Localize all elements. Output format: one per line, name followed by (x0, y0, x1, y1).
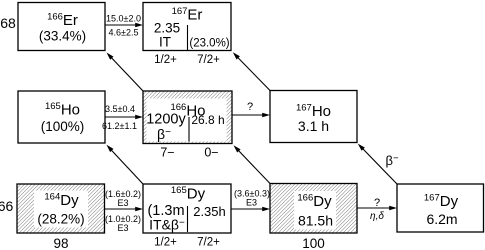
wire arrow 166Er to 167Er (105, 23, 143, 28)
isotope box 165Dy (143, 184, 231, 233)
svg-text:81.5h: 81.5h (298, 213, 333, 229)
isotope box 165Ho (18, 91, 105, 143)
svg-text:61.2±1.1: 61.2±1.1 (102, 121, 137, 131)
wire arrow 165Dy to 165Ho (107, 145, 144, 184)
svg-text:3.1 h: 3.1 h (298, 118, 329, 134)
svg-text:1/2+: 1/2+ (154, 54, 177, 66)
svg-text:2.35: 2.35 (154, 21, 180, 36)
svg-text:(28.2%): (28.2%) (37, 212, 84, 227)
wire arrow 166Dy to 166Ho (234, 145, 271, 183)
wire arrow 166Ho to 166Er (beta) (107, 53, 144, 92)
svg-text:1/2+: 1/2+ (154, 237, 177, 249)
svg-text:(23.0%): (23.0%) (189, 38, 229, 50)
svg-text:2.35h: 2.35h (193, 204, 226, 219)
svg-text:IT: IT (159, 35, 171, 50)
isotope box 166Ho (hatched) (143, 91, 232, 144)
svg-text:7/2+: 7/2+ (197, 54, 220, 66)
svg-text:(33.4%): (33.4%) (39, 29, 86, 44)
svg-text:1200y: 1200y (146, 112, 186, 128)
wire arrow 167Dy to 167Ho (beta) (358, 144, 397, 184)
isotope box 164Dy (hatched) (17, 184, 105, 233)
svg-text:68: 68 (0, 15, 16, 31)
svg-text:E3: E3 (117, 198, 128, 208)
svg-text:0−: 0− (204, 146, 218, 160)
svg-text:?: ? (374, 197, 380, 209)
wire arrow 165Dy to 166Dy (231, 207, 270, 212)
svg-text:26.8 h: 26.8 h (191, 113, 224, 127)
isotope box 166Er (18, 3, 105, 51)
svg-text:66: 66 (0, 198, 13, 214)
isotope box 167Dy (397, 184, 484, 232)
wire arrow 165Ho to 166Ho (105, 115, 143, 120)
svg-text:(100%): (100%) (41, 119, 85, 134)
svg-text:7−: 7− (160, 146, 174, 160)
svg-text:E3: E3 (117, 223, 128, 233)
isotope box 167Er (143, 3, 231, 51)
svg-text:4.6±2.5: 4.6±2.5 (109, 28, 139, 38)
svg-text:?: ? (247, 101, 253, 113)
isotope box 167Ho (270, 91, 357, 143)
wire arrow 166Dy to 167Dy (357, 206, 397, 211)
svg-text:η,δ: η,δ (370, 211, 384, 222)
svg-text:E3: E3 (246, 198, 257, 208)
wire arrow 167Ho to 167Er (233, 52, 270, 90)
svg-text:6.2m: 6.2m (426, 211, 457, 227)
isotope box 166Dy (hatched) (270, 184, 357, 234)
svg-text:15.0±2.0: 15.0±2.0 (106, 14, 141, 24)
svg-text:100: 100 (302, 236, 325, 250)
svg-text:7/2+: 7/2+ (197, 237, 220, 249)
svg-text:3.5±0.4: 3.5±0.4 (105, 104, 135, 114)
wire arrow 166Ho to 167Ho (232, 113, 270, 118)
wire arrow 164Dy to 165Dy (105, 207, 144, 212)
svg-text:98: 98 (53, 236, 68, 250)
